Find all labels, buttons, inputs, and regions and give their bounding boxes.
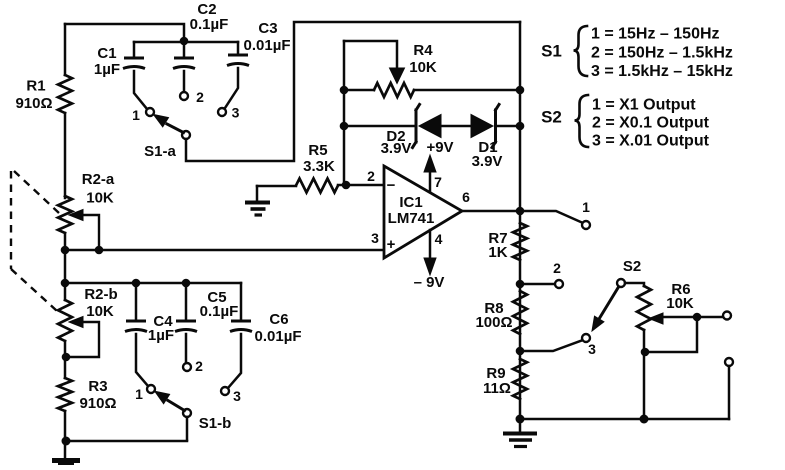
- node R4 right on rail: [516, 86, 525, 95]
- svg-text:S2: S2: [623, 258, 641, 275]
- legend S1 line 2: [591, 45, 733, 62]
- resistor R9 11Ω: [483, 359, 527, 399]
- node R2-a wiper tap: [95, 246, 104, 255]
- svg-text:100Ω: 100Ω: [475, 314, 512, 331]
- node R3 bottom junction: [62, 437, 71, 446]
- svg-text:+: +: [387, 236, 396, 253]
- svg-text:2: 2: [553, 260, 561, 276]
- wire S1-a common to right rail (top): [186, 22, 520, 161]
- potentiometer R2-b 10K: [58, 286, 118, 357]
- op-amp IC1 LM741: [367, 166, 470, 258]
- capacitor C5 0.1µF: [175, 283, 238, 363]
- ground bottom-right: [503, 419, 537, 447]
- wire capacitor bank rail C1-C3: [134, 41, 238, 44]
- svg-text:IC1: IC1: [399, 194, 422, 211]
- resistor R3 910Ω: [58, 378, 117, 412]
- pin 4 -9V supply arrow: [414, 230, 445, 291]
- node inverting input junction: [342, 181, 351, 190]
- svg-text:S1: S1: [541, 42, 562, 61]
- node diode row left: [340, 122, 349, 131]
- node R6 bottom loop: [641, 348, 650, 357]
- svg-text:10K: 10K: [666, 295, 694, 312]
- svg-text:R2-b: R2-b: [84, 286, 117, 303]
- svg-text:R1: R1: [26, 78, 45, 95]
- svg-text:2: 2: [367, 168, 375, 184]
- contact S1-b position 1: [135, 385, 155, 402]
- svg-text:10K: 10K: [409, 59, 437, 76]
- svg-text:S2: S2: [541, 108, 562, 127]
- contact S1-b position 3: [221, 387, 241, 404]
- wire right rail vertical: [519, 22, 522, 419]
- contact S1-a position 2: [180, 89, 204, 105]
- node C5 top: [182, 279, 191, 288]
- svg-text:R2-a: R2-a: [82, 171, 115, 188]
- svg-text:3.3K: 3.3K: [303, 158, 335, 175]
- svg-text:6: 6: [462, 189, 470, 205]
- contact S2 position 3: [582, 334, 596, 357]
- svg-text:910Ω: 910Ω: [15, 95, 52, 112]
- legend S1 brace: [574, 26, 588, 76]
- svg-text:C3: C3: [258, 20, 277, 37]
- wire diode row right: [496, 125, 521, 128]
- switch S1-b: [155, 391, 231, 432]
- svg-text:3.9V: 3.9V: [381, 140, 412, 157]
- wire diode row left: [344, 125, 415, 128]
- wire ground-side terminal to rail: [728, 366, 731, 419]
- resistor R1 910Ω: [15, 24, 72, 113]
- svg-text:2 = X0.1 Output: 2 = X0.1 Output: [592, 115, 710, 132]
- svg-text:2: 2: [196, 89, 204, 105]
- capacitor C4 1µF: [125, 283, 174, 386]
- svg-text:1K: 1K: [488, 244, 507, 261]
- potentiometer R2-a 10K: [58, 171, 115, 250]
- svg-text:1: 1: [135, 386, 143, 402]
- wire op-amp output: [462, 211, 583, 223]
- zener diode D2 3.9V: [381, 105, 441, 158]
- legend S1 line 1: [591, 26, 720, 43]
- svg-text:1µF: 1µF: [94, 61, 120, 78]
- legend S1 label: [541, 42, 562, 61]
- switch S1-a: [144, 115, 190, 161]
- wire R6 bottom to rail: [643, 330, 646, 419]
- wire R6 wiper loop to bottom: [645, 317, 697, 352]
- wire R2-a bottom through nodes to R2-b: [64, 233, 67, 300]
- svg-text:R4: R4: [413, 42, 433, 59]
- node R7-R8 junction: [516, 280, 525, 289]
- node output on rail: [516, 207, 525, 216]
- svg-text:11Ω: 11Ω: [483, 380, 511, 397]
- wire between D2 and D1: [441, 125, 471, 128]
- pin 7 +9V supply arrow: [424, 139, 454, 191]
- zener diode D1 3.9V: [471, 105, 502, 171]
- svg-text:0.1µF: 0.1µF: [190, 16, 229, 33]
- svg-text:0.01µF: 0.01µF: [244, 37, 291, 54]
- terminal output 2: [553, 260, 563, 288]
- resistor R8 100Ω: [475, 291, 527, 334]
- node R6 wiper junction: [693, 313, 702, 322]
- terminal output 1: [582, 199, 590, 229]
- wire inverting feedback node vertical: [343, 41, 346, 185]
- svg-text:R5: R5: [308, 142, 327, 159]
- capacitor C1 1µF: [94, 42, 147, 109]
- wire capacitor bank rail C4-C6: [65, 282, 241, 285]
- svg-text:4: 4: [435, 231, 443, 247]
- svg-text:3: 3: [588, 341, 596, 357]
- svg-text:3: 3: [371, 230, 379, 246]
- contact S1-a position 1: [132, 107, 154, 123]
- switch S2: [592, 258, 641, 331]
- wire non-inverting input node to op-amp pin 3: [65, 249, 384, 252]
- potentiometer R6 10K: [637, 281, 723, 330]
- resistor R7 1K: [488, 223, 527, 261]
- svg-text:LM741: LM741: [388, 210, 435, 227]
- svg-text:3 = X.01 Output: 3 = X.01 Output: [592, 133, 710, 150]
- node C4 top: [132, 279, 141, 288]
- svg-text:C1: C1: [97, 45, 116, 62]
- wire to S2 contact 3: [520, 340, 583, 351]
- capacitor C3 0.01µF: [225, 20, 291, 108]
- svg-text:1 = X1 Output: 1 = X1 Output: [592, 97, 696, 114]
- svg-text:0.01µF: 0.01µF: [255, 328, 302, 345]
- node R4 left: [340, 86, 349, 95]
- wire to terminal 2: [520, 283, 555, 286]
- svg-text:+9V: +9V: [426, 139, 453, 156]
- wire bottom rail: [520, 418, 729, 421]
- node cap rail 2 left: [61, 279, 70, 288]
- svg-text:0.1µF: 0.1µF: [200, 303, 239, 320]
- wire top-left from R1 top to C2 junction: [65, 24, 184, 41]
- svg-text:– 9V: – 9V: [414, 274, 445, 291]
- svg-text:3: 3: [232, 105, 240, 121]
- node R6 bottom on rail: [640, 415, 649, 424]
- svg-text:10K: 10K: [86, 190, 114, 207]
- node R8-R9 junction: [516, 347, 525, 356]
- capacitor C6 0.01µF: [228, 283, 302, 388]
- contact S1-b position 2: [183, 358, 203, 374]
- node bottom rail left: [516, 415, 525, 424]
- node diode row right on rail: [516, 122, 525, 131]
- svg-text:2: 2: [195, 358, 203, 374]
- svg-text:3: 3: [233, 388, 241, 404]
- svg-text:10K: 10K: [86, 303, 114, 320]
- svg-text:S1-a: S1-a: [144, 143, 176, 160]
- svg-text:2 = 150Hz – 1.5kHz: 2 = 150Hz – 1.5kHz: [591, 45, 733, 62]
- legend S1 line 3: [591, 63, 733, 80]
- legend S2 label: [541, 108, 562, 127]
- svg-text:1: 1: [582, 199, 590, 215]
- wire S2 common to R6 top: [625, 283, 644, 286]
- node R2-b wiper junction: [62, 353, 71, 362]
- svg-text:−: −: [387, 177, 396, 194]
- ground bottom-left: [52, 461, 80, 466]
- terminal R6 wiper output: [723, 312, 731, 320]
- legend S2 brace: [575, 95, 589, 147]
- potentiometer R4 10K: [344, 41, 520, 97]
- wire R2-b to R3: [64, 341, 67, 378]
- node pin3 wire left: [61, 246, 70, 255]
- terminal ground-side output: [725, 358, 733, 366]
- svg-text:1: 1: [132, 107, 140, 123]
- legend S2 line 3: [592, 133, 710, 150]
- capacitor C2 0.1µF: [173, 1, 228, 91]
- resistor R5 3.3K: [257, 142, 384, 193]
- dashed gang link R2-a/R2-b: [11, 171, 59, 311]
- svg-text:1 = 15Hz – 150Hz: 1 = 15Hz – 150Hz: [591, 26, 720, 43]
- svg-text:7: 7: [434, 174, 442, 190]
- ground at R5: [245, 186, 270, 215]
- contact S1-a position 3: [218, 105, 240, 121]
- svg-text:3.9V: 3.9V: [472, 153, 503, 170]
- svg-text:910Ω: 910Ω: [79, 395, 116, 412]
- legend S2 line 2: [592, 115, 710, 132]
- svg-text:S1-b: S1-b: [199, 415, 232, 432]
- wire R3 bottom to ground and S1-b: [65, 411, 187, 459]
- svg-text:1µF: 1µF: [148, 327, 174, 344]
- wire S1-b common to R3 bottom: [186, 417, 189, 440]
- wire R1 bottom to R2-a: [64, 113, 67, 198]
- legend S2 line 1: [592, 97, 696, 114]
- svg-text:C6: C6: [269, 311, 288, 328]
- node C2 top junction: [180, 37, 189, 46]
- svg-text:3 = 1.5kHz – 15kHz: 3 = 1.5kHz – 15kHz: [591, 63, 733, 80]
- svg-text:R3: R3: [88, 378, 107, 395]
